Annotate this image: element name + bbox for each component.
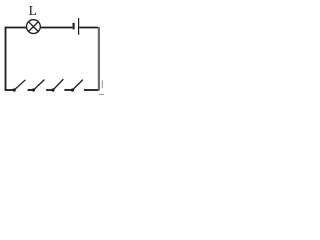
svg-text:L: L [29,3,37,18]
